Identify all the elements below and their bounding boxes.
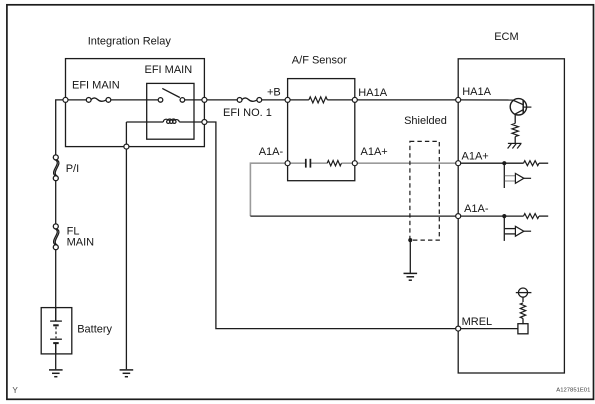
relay EFI MAIN inner box: [147, 83, 194, 139]
wire shield to ground: [409, 240, 411, 273]
wire sensor heater row: [288, 99, 309, 101]
wire HA1A inside ECM to transistor: [458, 99, 513, 101]
node A1A- ECM: [456, 214, 461, 219]
wire A1A- gray (sensor A1A- node left then down to corner): [250, 163, 287, 216]
wire A1A- return run to ECM: [250, 215, 458, 217]
relay switch contacts: [158, 98, 185, 103]
battery box: [41, 308, 72, 354]
svg-text:A127851E01: A127851E01: [556, 387, 590, 393]
svg-text:A1A+: A1A+: [361, 146, 388, 158]
wire FL MAIN to battery: [55, 250, 57, 321]
fuse EFI NO. 1: [237, 98, 261, 103]
wire relay ground branch: [125, 122, 127, 369]
svg-text:+B: +B: [267, 86, 281, 98]
ground below relay branch: [120, 370, 134, 377]
input stub: [503, 163, 505, 188]
power source symbol: [516, 288, 532, 302]
node MREL ECM: [456, 326, 461, 331]
svg-text:A/F Sensor: A/F Sensor: [292, 55, 347, 67]
node A1A- sensor: [285, 161, 290, 166]
svg-text:Shielded: Shielded: [404, 115, 447, 127]
svg-text:A1A+: A1A+: [462, 151, 489, 163]
sensor cell resistor: [327, 161, 341, 166]
wire relay to EFI NO. 1 fuse: [204, 99, 237, 101]
wire fuse to relay switch: [111, 99, 159, 101]
fuse P/I: [53, 155, 59, 181]
node relay right switch out: [202, 97, 207, 102]
wire A1A+ gray (sensor to ECM): [355, 162, 458, 164]
wire ECM row to junction: [458, 162, 504, 164]
node +B: [285, 97, 290, 102]
svg-text:A1A-: A1A-: [464, 203, 489, 215]
transistor emitter resistor: [512, 123, 518, 136]
node A1A+ ECM: [456, 161, 461, 166]
shield junction dot: [408, 238, 412, 242]
battery cells: [50, 308, 62, 354]
integration relay box: [66, 59, 205, 147]
wire coil right to relay node: [179, 121, 204, 123]
svg-text:P/I: P/I: [66, 163, 79, 175]
relay coil L: [163, 119, 179, 123]
node A1A+ sensor: [352, 161, 357, 166]
wire ECM row to junction: [458, 215, 504, 217]
wire HA1A sensor to ECM: [355, 99, 458, 101]
wire fuse to +B node: [262, 99, 288, 101]
svg-text:Battery: Battery: [77, 324, 112, 336]
node HA1A sensor: [352, 97, 357, 102]
svg-text:ECM: ECM: [494, 31, 518, 43]
shield dashed box: [410, 141, 439, 240]
wire coil row left: [126, 121, 163, 123]
sensor heater resistor: [309, 97, 327, 103]
svg-text:A1A-: A1A-: [259, 146, 284, 158]
svg-text:MAIN: MAIN: [67, 236, 95, 248]
MREL driver: wire node to box: [458, 328, 518, 330]
svg-text:Y: Y: [12, 386, 18, 395]
fuse EFI MAIN: [86, 98, 111, 103]
op-amp buffer: [515, 226, 524, 236]
pull resistor: [504, 162, 523, 164]
wire gray inside sensor cell row: [288, 162, 306, 164]
sensor cell capacitor: [306, 159, 311, 168]
node relay right coil out: [202, 120, 207, 125]
svg-text:EFI MAIN: EFI MAIN: [145, 64, 193, 76]
wire relay node down to MREL run: [204, 122, 458, 329]
fuse FL MAIN: [53, 224, 59, 250]
A/F sensor box: [288, 79, 355, 181]
pull resistor: [504, 215, 523, 217]
MREL pull-up resistor: [520, 303, 525, 319]
junction dot: [502, 161, 506, 165]
svg-text:HA1A: HA1A: [462, 86, 491, 98]
svg-text:EFI NO. 1: EFI NO. 1: [223, 107, 272, 119]
wire battery to ground: [55, 344, 57, 370]
input stub: [503, 216, 505, 241]
node relay left (battery feed): [63, 97, 68, 102]
ground below shield: [404, 273, 418, 280]
ECM box: [458, 59, 564, 373]
chassis ground (transistor): [508, 143, 522, 148]
op-amp buffer: [515, 173, 524, 183]
ground below battery: [49, 370, 63, 377]
wire battery branch top: [56, 100, 66, 155]
node HA1A ECM: [456, 97, 461, 102]
transistor Q (heater driver): [510, 99, 531, 124]
junction dot: [502, 214, 506, 218]
wire switch to relay right node: [185, 99, 205, 101]
node relay bottom (coil ground): [124, 144, 129, 149]
wire node to EFI MAIN fuse: [66, 99, 87, 101]
svg-text:EFI MAIN: EFI MAIN: [72, 79, 120, 91]
wire P/I to FL MAIN: [55, 181, 57, 224]
MREL driver box: [518, 324, 528, 334]
svg-text:HA1A: HA1A: [358, 87, 387, 99]
svg-text:Integration Relay: Integration Relay: [88, 35, 172, 47]
svg-text:MREL: MREL: [462, 316, 493, 328]
relay switch blade: [162, 88, 180, 97]
